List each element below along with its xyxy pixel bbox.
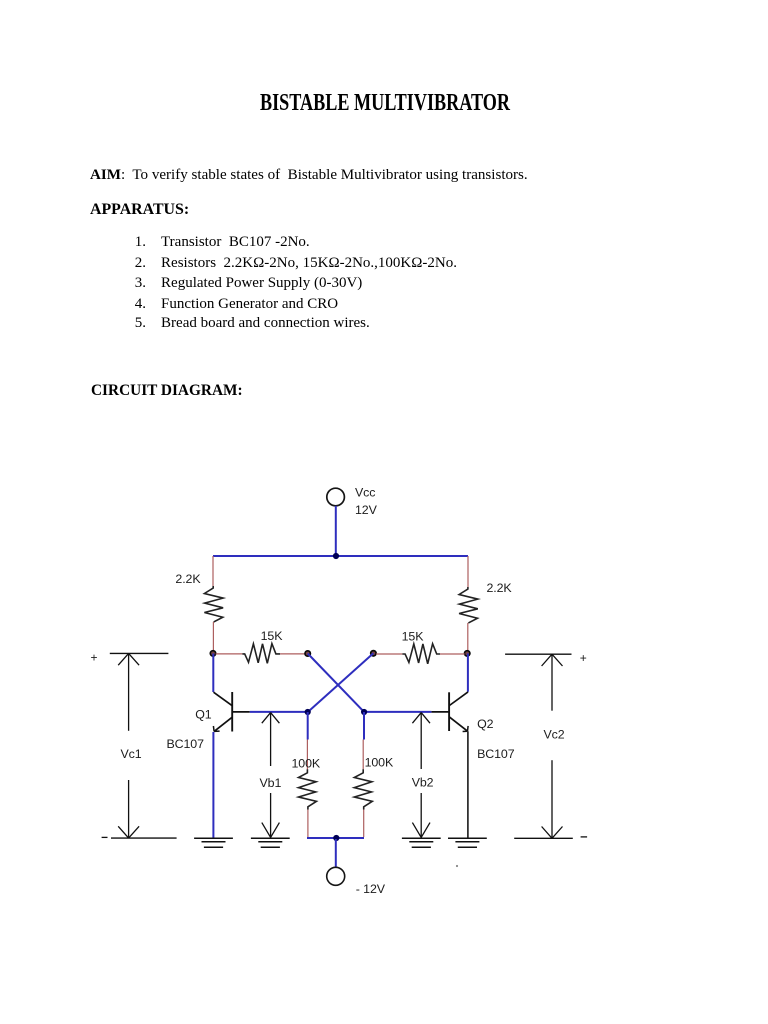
- svg-text:12V: 12V: [355, 503, 378, 517]
- wire R6 to rail: [363, 810, 365, 838]
- transistor Q1: [213, 654, 250, 732]
- ground G2: [251, 838, 290, 847]
- wire R4 to node: [440, 653, 465, 655]
- wire base Q2: [364, 711, 431, 713]
- label Vcc 12V: [355, 486, 378, 518]
- junction base Q2: [361, 709, 367, 715]
- wire bottom rail: [307, 837, 364, 839]
- svg-text:2.2K: 2.2K: [175, 572, 201, 586]
- resistor R3 15K left: [242, 644, 280, 664]
- node collector Q1: [210, 651, 215, 656]
- ground G3: [402, 838, 441, 847]
- list: [135, 235, 310, 250]
- label Vb1: [260, 776, 282, 790]
- wire rail to R2: [467, 556, 469, 587]
- wire rail to R1: [212, 556, 214, 586]
- resistor R1 2.2K left: [204, 586, 223, 622]
- wire base Q2 down: [363, 712, 365, 740]
- arrow Vb2: [412, 713, 430, 838]
- svg-text:Vc2: Vc2: [543, 728, 564, 742]
- wire supply stub: [335, 839, 337, 867]
- wire to R5: [306, 740, 308, 770]
- svg-text:Q1: Q1: [195, 707, 212, 721]
- wire base Q1 down: [307, 712, 309, 740]
- label Q2: [477, 717, 494, 731]
- arrow Vb1: [262, 713, 280, 838]
- junction bottom rail: [333, 835, 339, 841]
- wire cross D2: [308, 653, 374, 712]
- label 100K right: [365, 756, 394, 770]
- label -12V: [356, 882, 386, 896]
- ground G4: [448, 838, 487, 847]
- svg-text:100K: 100K: [365, 756, 394, 770]
- svg-text:2.2K: 2.2K: [487, 581, 513, 595]
- svg-text:- 12V: - 12V: [356, 882, 386, 896]
- node A left cross: [305, 651, 310, 656]
- resistor R4 15K right: [402, 644, 440, 664]
- wire R3 to node: [280, 653, 305, 655]
- junction base Q1: [305, 709, 311, 715]
- wire R5 to rail: [307, 810, 309, 838]
- wire node to R3: [216, 653, 243, 655]
- svg-text:BC107: BC107: [477, 747, 515, 761]
- label plus Vc2: [580, 651, 587, 665]
- wire base Q1: [250, 711, 308, 713]
- label Vc2: [543, 728, 564, 742]
- svg-text:15K: 15K: [261, 629, 284, 643]
- node B right cross: [371, 651, 376, 656]
- label 100K left: [292, 757, 321, 771]
- svg-text:+: +: [90, 651, 97, 665]
- node collector Q2: [465, 651, 470, 656]
- wire emitter Q2 to ground: [467, 731, 469, 837]
- meter Vc2: [505, 654, 573, 838]
- label minus Vc1: [102, 836, 108, 838]
- aim line: [90, 168, 528, 182]
- label 15K right: [402, 630, 425, 644]
- title: [260, 91, 510, 116]
- Vcc terminal circle: [327, 488, 345, 506]
- resistor R5 100K left: [299, 769, 317, 809]
- wire to R6: [362, 740, 364, 770]
- wire R2 to node: [467, 623, 469, 651]
- label BC107 Q2: [477, 747, 515, 761]
- label 2.2K right: [487, 581, 513, 595]
- transistor Q2: [431, 653, 468, 731]
- label BC107 Q1: [167, 737, 205, 751]
- svg-text:+: +: [580, 651, 587, 665]
- label Q1: [195, 707, 212, 721]
- wire Vcc stub: [335, 506, 337, 556]
- resistor R2 2.2K right: [459, 587, 478, 623]
- svg-text:Vb1: Vb1: [260, 776, 282, 790]
- wire top rail: [213, 555, 468, 557]
- resistor R6 100K right: [354, 769, 372, 809]
- wire node to R4: [376, 653, 402, 655]
- svg-text:Vb2: Vb2: [412, 775, 434, 789]
- svg-text:15K: 15K: [402, 630, 425, 644]
- svg-text:Q2: Q2: [477, 717, 494, 731]
- wire R1 to node: [212, 622, 214, 651]
- circuit heading: [91, 383, 243, 399]
- label Vc1: [120, 747, 141, 761]
- label Vb2: [412, 775, 434, 789]
- speck: [456, 865, 458, 867]
- label plus Vc1: [90, 651, 97, 665]
- ground G1: [194, 838, 233, 847]
- label 15K left: [261, 629, 284, 643]
- svg-text:Vcc: Vcc: [355, 486, 375, 500]
- label minus Vc2: [581, 836, 588, 838]
- wire emitter Q1 to ground: [212, 732, 214, 838]
- junction Vcc rail: [333, 553, 339, 559]
- svg-text:BC107: BC107: [167, 737, 205, 751]
- wire cross D1: [308, 654, 365, 713]
- apparatus heading: [90, 202, 189, 218]
- svg-text:100K: 100K: [292, 757, 321, 771]
- terminal -12V circle: [327, 867, 345, 885]
- meter Vc1: [110, 653, 177, 838]
- svg-text:Vc1: Vc1: [120, 747, 141, 761]
- label 2.2K left: [175, 572, 201, 586]
